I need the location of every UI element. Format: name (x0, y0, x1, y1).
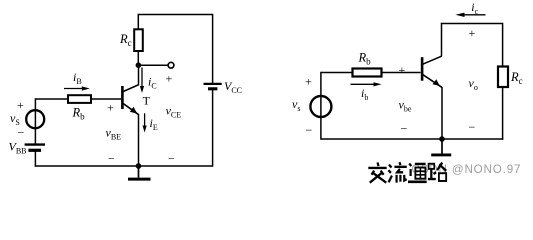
svg-text:−: − (18, 126, 25, 140)
wire battery to bottom rail (34, 150, 36, 166)
svg-text:+: + (107, 100, 114, 114)
svg-text:iC: iC (148, 75, 157, 91)
svg-text:+: + (17, 98, 24, 112)
svg-text:+: + (305, 75, 312, 89)
current arrow iC (140, 68, 144, 94)
current arrow ic (455, 13, 485, 17)
wire VCC branch upper (212, 14, 214, 83)
svg-text:ib: ib (361, 86, 368, 102)
wire top left segment (321, 72, 353, 74)
transistor T (121, 85, 139, 115)
source vs circle (310, 96, 331, 117)
char 路 (428, 163, 446, 181)
resistor Rb (AC) (353, 69, 382, 77)
wire top rail (AC) (441, 23, 503, 25)
wire bottom rail (AC) (321, 138, 503, 140)
svg-text:Rc: Rc (510, 70, 523, 86)
svg-text:vbe: vbe (399, 98, 412, 114)
svg-text:Rb: Rb (358, 51, 372, 67)
svg-text:−: − (469, 120, 476, 134)
open terminal vCE+ (168, 62, 174, 68)
resistor Rc (AC) (498, 67, 508, 88)
transistor T2 (421, 56, 442, 87)
char 交 (368, 162, 386, 182)
resistor Rb (68, 95, 91, 103)
current arrow iB (64, 86, 90, 90)
wire Rb to base (382, 72, 421, 74)
wire VCC branch lower (212, 89, 214, 167)
current arrow iE (143, 113, 147, 132)
wire bottom rail left circuit (35, 165, 213, 167)
svg-text:+: + (469, 26, 476, 40)
current arrow ib (351, 82, 382, 86)
ground (128, 166, 151, 179)
svg-text:VCC: VCC (224, 79, 242, 95)
wire collector vertical up (441, 23, 443, 57)
wire Rc branch bottom (AC) (502, 87, 504, 140)
wire collector vertical (138, 65, 140, 85)
svg-text:vCE: vCE (166, 104, 182, 120)
node emitter junction dot (AC) (439, 136, 445, 142)
svg-text:+: + (166, 72, 173, 86)
svg-text:vs: vs (292, 97, 300, 113)
svg-text:−: − (168, 152, 175, 166)
svg-text:+: + (399, 63, 406, 77)
ground (AC) (431, 139, 451, 155)
svg-text:vBE: vBE (106, 126, 122, 142)
svg-text:vS: vS (10, 111, 20, 127)
wire left branch top (34, 98, 36, 144)
resistor Rc (134, 29, 143, 51)
node collector junction dot (136, 62, 142, 68)
battery VCC (204, 84, 222, 89)
svg-text:vo: vo (469, 76, 478, 92)
svg-text:iE: iE (150, 116, 158, 132)
svg-text:Rb: Rb (72, 106, 86, 122)
svg-text:iB: iB (73, 70, 82, 86)
svg-text:−: − (306, 123, 313, 137)
svg-text:ic: ic (471, 0, 478, 16)
wire left branch (AC) (320, 72, 322, 140)
caption 交流通路 (hand-drawn strokes) (368, 162, 446, 183)
wire emitter vertical down (AC) (441, 87, 443, 139)
char 流 (388, 162, 406, 182)
wire Rc bottom to node (137, 51, 139, 66)
wire emitter vertical (138, 114, 140, 166)
wire top rail left circuit (138, 14, 212, 16)
svg-text:−: − (401, 122, 408, 136)
wire Rc branch top (137, 14, 139, 30)
svg-text:Rc: Rc (119, 32, 132, 48)
char 通 (408, 163, 427, 181)
svg-text:−: − (108, 152, 115, 166)
svg-text:VBB: VBB (9, 139, 27, 155)
wire node to output terminal (138, 64, 168, 66)
svg-text:T: T (143, 94, 151, 108)
wire base (36, 98, 122, 100)
node emitter junction dot (136, 163, 142, 169)
wire Rc branch top (AC) (502, 23, 504, 67)
source vS circle (26, 110, 44, 128)
battery VBB (25, 145, 45, 151)
